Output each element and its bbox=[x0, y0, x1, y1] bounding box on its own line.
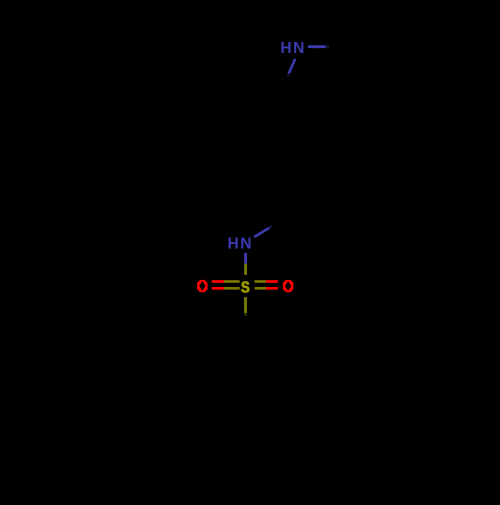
double bond S1=O2 lower line (O half red) bbox=[266, 287, 278, 290]
bond N1-C5 (N half, going down-left) bbox=[289, 59, 295, 73]
svg-text:N: N bbox=[240, 235, 251, 252]
bond N1-C2 (N half, to upper-right methylene) bbox=[308, 45, 325, 48]
bond N2-S1 (S half, olive) bbox=[244, 264, 247, 275]
svg-text:N: N bbox=[293, 40, 304, 57]
double bond S1=O1 lower line (O half red) bbox=[212, 287, 224, 290]
svg-text:H: H bbox=[227, 235, 238, 252]
double bond S1=O1 upper line (S half olive) bbox=[224, 280, 240, 283]
double bond S1=O2 upper line (S half olive) bbox=[255, 280, 266, 283]
bond N2-S1 (N half, blue) bbox=[244, 253, 247, 264]
svg-text:S: S bbox=[241, 279, 250, 296]
double bond S1=O1 upper line (O half red) bbox=[212, 280, 224, 283]
double bond S1=O2 lower line (S half olive) bbox=[255, 287, 266, 290]
bond N2-C6 (N half, going up-right) bbox=[254, 228, 269, 237]
double bond S1=O2 upper line (O half red) bbox=[266, 280, 278, 283]
atom label O1 (left sulfonyl oxygen) bbox=[197, 280, 208, 292]
double bond S1=O1 lower line (S half olive) bbox=[224, 287, 240, 290]
atom label O2 (right sulfonyl oxygen) bbox=[283, 280, 294, 292]
svg-text:H: H bbox=[280, 40, 291, 57]
bond S1-C7 (S half olive, going down to aryl carbon) bbox=[244, 297, 247, 313]
